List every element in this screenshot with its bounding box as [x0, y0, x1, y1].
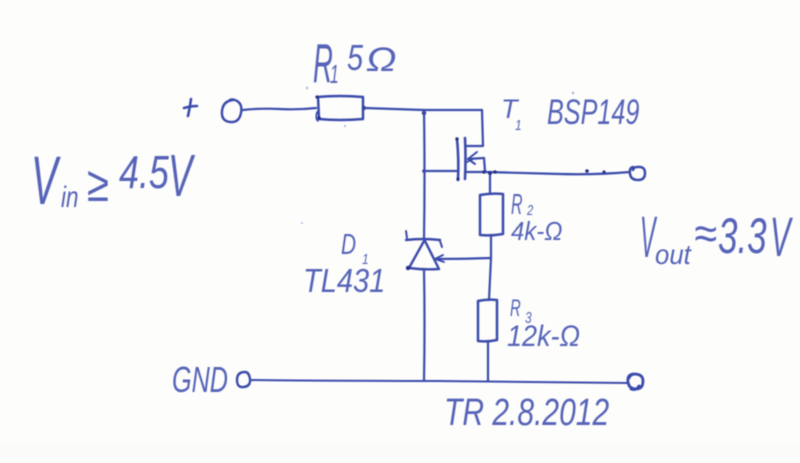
- wire node B to R3: [489, 258, 491, 300]
- junction dot at source node: [488, 171, 492, 175]
- wire node A to drain corner (top rail): [424, 109, 482, 111]
- arrowhead on reference wire: [435, 255, 444, 262]
- label Vin spec "Vin ≥ 4.5V": [31, 142, 196, 219]
- wire drain vertical: [466, 110, 483, 146]
- wire left rail (gate node down to diode cathode): [423, 110, 426, 239]
- resistor R3: [478, 300, 497, 342]
- svg-text:in: in: [61, 180, 79, 214]
- svg-text:1: 1: [515, 117, 522, 134]
- svg-text:BSP149: BSP149: [547, 93, 639, 132]
- label R3 value "R3 12kΩ": [507, 296, 580, 354]
- svg-text:TL431: TL431: [303, 262, 385, 299]
- node A junction dot: [422, 111, 426, 115]
- svg-text:D: D: [341, 229, 356, 261]
- wire R2 to node B: [490, 235, 492, 258]
- wire R3 to GND rail: [487, 341, 489, 381]
- svg-text:TR 2.8.2012: TR 2.8.2012: [444, 392, 609, 434]
- label R2 value "R2 4kΩ": [511, 188, 562, 246]
- svg-text:V: V: [31, 142, 61, 219]
- svg-text:5: 5: [347, 37, 364, 78]
- GND right terminal circle: [628, 374, 643, 390]
- transistor T1 (depletion MOSFET): [455, 137, 486, 180]
- terminal + plus sign (input): [184, 99, 197, 116]
- svg-text:4.5: 4.5: [119, 147, 170, 198]
- svg-text:3.3: 3.3: [718, 209, 767, 265]
- svg-text:12k-Ω: 12k-Ω: [507, 320, 580, 354]
- label R1 value "R1 5Ω": [313, 34, 397, 95]
- diode D1 TL431 (zener-style cathode bar): [406, 231, 442, 270]
- wire reference (node B to D1 ref arrow): [437, 258, 491, 259]
- svg-text:R: R: [511, 188, 523, 220]
- svg-text:V: V: [770, 205, 793, 268]
- svg-text:out: out: [655, 239, 692, 270]
- svg-text:R: R: [510, 296, 521, 322]
- svg-text:Ω: Ω: [366, 40, 397, 78]
- label D1 type "D1 TL431": [303, 229, 385, 300]
- wire input terminal to R1: [243, 108, 316, 110]
- ink specks: [301, 87, 574, 229]
- label Vout spec "Vout ≈ 3.3V": [640, 205, 793, 270]
- svg-text:1: 1: [330, 60, 339, 89]
- wire source node down to R2: [489, 172, 491, 194]
- GND terminal circle: [237, 372, 250, 387]
- wire R1 to node A: [364, 108, 424, 110]
- ink blobs on output wire: [585, 169, 589, 173]
- wire D1 anode to GND rail: [423, 269, 426, 381]
- resistor R2: [480, 194, 503, 236]
- svg-text:2: 2: [526, 201, 534, 218]
- input terminal circle: [222, 100, 242, 123]
- svg-text:≈: ≈: [694, 208, 717, 260]
- wire gate (node A rail to gate bar): [424, 170, 458, 172]
- output terminal circle (Vout): [630, 167, 645, 180]
- resistor R1: [315, 95, 366, 121]
- svg-text:GND: GND: [172, 360, 228, 401]
- svg-text:≥: ≥: [87, 156, 109, 212]
- svg-text:4k-Ω: 4k-Ω: [511, 217, 562, 246]
- svg-text:V: V: [168, 144, 196, 209]
- label T1 type "T1 BSP149": [501, 93, 639, 133]
- wire GND rail: [250, 380, 627, 383]
- wire source to output terminal: [486, 172, 630, 174]
